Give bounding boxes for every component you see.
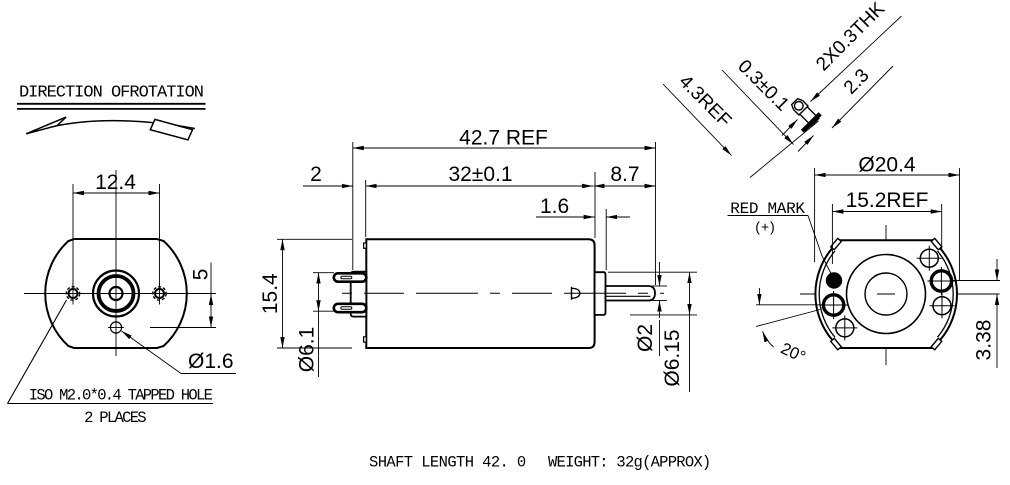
vent hole top-right xyxy=(917,246,942,271)
motor body outline (rear) xyxy=(815,240,957,348)
dim dia 6.1 xyxy=(313,273,334,377)
centerline vertical xyxy=(115,170,117,356)
dim 0.3±0.1 (rotated) xyxy=(722,70,794,145)
shaft flat line xyxy=(606,295,651,297)
svg-text:Ø6.1: Ø6.1 xyxy=(296,327,319,373)
bearing boss outer circle xyxy=(93,271,139,317)
svg-text:(+): (+) xyxy=(754,222,775,237)
left tapped hole xyxy=(62,283,84,305)
leader ISO tapped hole note xyxy=(8,300,214,404)
vent hole right-lower xyxy=(930,293,955,318)
svg-text:42.7 REF: 42.7 REF xyxy=(459,127,548,150)
dim 8.7 xyxy=(594,185,656,187)
svg-text:15.2REF: 15.2REF xyxy=(846,189,929,212)
rotation arrow arc xyxy=(26,117,195,140)
svg-text:Ø1.6: Ø1.6 xyxy=(188,350,234,373)
center symbol xyxy=(572,287,580,300)
crimp notch top-left xyxy=(831,238,842,249)
dim dia 20.4 xyxy=(815,168,960,281)
terminal hole right (thick) xyxy=(927,267,955,295)
crimp bar of tab xyxy=(802,114,820,132)
svg-text:SHAFT LENGTH 42. 0: SHAFT LENGTH 42. 0 xyxy=(369,454,526,472)
dim 15.4 xyxy=(277,239,352,348)
bushing xyxy=(595,272,606,315)
bearing circle xyxy=(865,273,907,315)
dim 12.4 xyxy=(73,184,160,287)
red mark dot xyxy=(826,272,842,288)
dim 2.3 (rotated) xyxy=(832,66,893,128)
dim 15.2REF xyxy=(832,204,941,264)
svg-text:5: 5 xyxy=(190,269,213,281)
right tapped hole xyxy=(149,283,171,305)
dim 20 deg xyxy=(756,288,823,347)
dim dia 6.15 xyxy=(608,272,697,392)
label DIRECTION OFROTATION xyxy=(17,84,206,109)
leader dia 1.6 xyxy=(122,331,237,374)
svg-text:12.4: 12.4 xyxy=(95,171,136,194)
svg-text:Ø6.15: Ø6.15 xyxy=(661,329,684,386)
crimp notch top-right xyxy=(931,238,942,249)
can curl notch top xyxy=(364,243,367,248)
svg-text:3.38: 3.38 xyxy=(973,320,996,361)
motor body (side) xyxy=(366,239,594,348)
terminal hole left (thick) xyxy=(820,291,848,319)
svg-text:2 PLACES: 2 PLACES xyxy=(84,409,146,427)
svg-text:DIRECTION OFROTATION: DIRECTION OFROTATION xyxy=(19,84,203,103)
svg-text:0.3±0.1: 0.3±0.1 xyxy=(733,56,793,116)
centerline horizontal xyxy=(24,293,216,295)
rotor circle xyxy=(847,255,926,334)
svg-text:8.7: 8.7 xyxy=(610,163,639,186)
dim dia 2 xyxy=(651,262,667,356)
dim 1.6 xyxy=(536,209,630,270)
inner wall arc right xyxy=(938,251,954,337)
centerline (side) xyxy=(342,292,664,294)
crimp notch bottom-right xyxy=(931,338,942,349)
small arrows at tab xyxy=(782,120,798,136)
svg-text:1.6: 1.6 xyxy=(540,195,569,218)
svg-text:2.3: 2.3 xyxy=(840,65,874,99)
svg-text:ISO M2.0*0.4 TAPPED HOLE: ISO M2.0*0.4 TAPPED HOLE xyxy=(29,387,213,405)
dim 4.3REF (rotated) xyxy=(663,84,732,156)
svg-text:4.3REF: 4.3REF xyxy=(675,71,735,131)
svg-text:Ø20.4: Ø20.4 xyxy=(858,154,916,177)
terminal 1 xyxy=(334,273,367,281)
shaft xyxy=(606,286,656,301)
centerline vertical (rear) xyxy=(885,225,887,365)
dim 32±0.1 xyxy=(366,172,595,238)
dim 42.7 REF xyxy=(353,142,656,285)
centerline horizontal (rear) xyxy=(800,293,1000,295)
vent hole bottom-left xyxy=(832,315,857,340)
svg-text:32±0.1: 32±0.1 xyxy=(448,163,512,186)
label 2X0.3THK leader (rotated) xyxy=(811,16,902,102)
motor body outline (front) xyxy=(45,239,187,348)
red mark leader xyxy=(808,216,831,274)
bearing boss thick ring xyxy=(99,276,134,311)
tab axis extension line xyxy=(750,121,819,178)
svg-text:WEIGHT: 32g(APPROX): WEIGHT: 32g(APPROX) xyxy=(548,454,710,472)
terminal 2 xyxy=(334,304,367,312)
svg-text:2: 2 xyxy=(310,163,322,186)
bottom hole (1.6) xyxy=(108,322,124,333)
svg-text:15.4: 15.4 xyxy=(259,273,282,314)
end cap xyxy=(351,272,367,317)
dim 3.38 xyxy=(952,259,1000,368)
shaft circle xyxy=(110,287,123,300)
can curl notch bottom xyxy=(364,337,367,342)
terminal tab (rotated 45) xyxy=(784,95,822,133)
center tick xyxy=(877,293,895,295)
dim 2 xyxy=(303,185,353,187)
svg-text:Ø2: Ø2 xyxy=(634,324,657,352)
inner wall arc left xyxy=(819,251,835,337)
dim 5 xyxy=(150,263,216,328)
crimp notch bottom-left xyxy=(831,338,842,349)
svg-text:20°: 20° xyxy=(778,340,808,367)
